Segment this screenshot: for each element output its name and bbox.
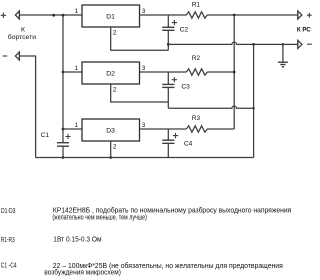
ground symbol <box>282 43 285 46</box>
ground rail row1 to − output (with hop over + bus) <box>168 42 297 44</box>
node + input terminal label <box>1 13 6 18</box>
junction dot input bus tap <box>62 14 65 17</box>
junction dot D3 tap <box>62 128 65 131</box>
junction dot C1 to rail <box>62 156 65 159</box>
svg-text:D1-D3: D1-D3 <box>1 206 15 215</box>
svg-text:1Вт 0.15-0.3 Ом: 1Вт 0.15-0.3 Ом <box>53 235 101 244</box>
svg-text:2: 2 <box>113 87 117 94</box>
svg-text:R1: R1 <box>192 2 201 9</box>
regulator D1 <box>82 5 140 27</box>
svg-text:3: 3 <box>142 65 146 72</box>
resistor R3 <box>186 126 207 132</box>
svg-text:К РС: К РС <box>297 26 311 33</box>
capacitor C1 <box>57 143 69 147</box>
output + bus (vertical) <box>233 15 235 129</box>
svg-text:R2: R2 <box>192 55 201 62</box>
wire − input down to bottom ground rail <box>19 56 35 158</box>
svg-text:К: К <box>21 26 25 33</box>
input + bus wire (vertical) <box>62 15 64 142</box>
svg-text:C1: C1 <box>41 132 50 139</box>
junction dot ground bus top <box>252 43 255 46</box>
svg-text:3: 3 <box>142 122 146 129</box>
connector + output <box>298 11 302 19</box>
capacitor C2 <box>167 15 169 27</box>
svg-text:R1-R3: R1-R3 <box>1 235 15 244</box>
svg-text:D1: D1 <box>106 14 115 21</box>
wire R2 to + bus <box>207 71 234 73</box>
junction dot ground bus row2 <box>252 107 254 109</box>
resistor R2 <box>186 69 207 75</box>
resistor R1 <box>186 12 207 18</box>
ground bus (vertical) <box>253 44 255 157</box>
svg-text:C2: C2 <box>180 27 189 34</box>
svg-text:1: 1 <box>75 65 79 72</box>
svg-text:1: 1 <box>75 122 79 129</box>
svg-text:возбуждения микросхем): возбуждения микросхем) <box>44 268 121 277</box>
junction dot ground tap row1 <box>167 43 170 46</box>
svg-text:(желательно чем меньше, тем лу: (желательно чем меньше, тем лучше) <box>52 212 146 221</box>
svg-text:D2: D2 <box>106 71 115 78</box>
regulator D3 <box>82 119 140 141</box>
capacitor C3 <box>167 72 169 84</box>
svg-text:2: 2 <box>113 30 117 37</box>
junction dot (stray) on input wire <box>52 14 55 17</box>
wire + input to D1 pin1 <box>19 14 82 16</box>
ground rail row2 (hop over + bus) <box>168 106 253 108</box>
wire bus to D2 pin1 <box>63 71 82 73</box>
wire D3 pin3 to R3 <box>140 128 187 130</box>
wire R3 to + bus <box>207 128 234 130</box>
wire D3 pin2 to bottom rail <box>110 141 112 158</box>
connector X1 pin − (input) <box>15 52 19 60</box>
junction dot D2 tap <box>62 71 65 74</box>
junction dot + bus row2 <box>233 71 236 74</box>
wire R1 to + output <box>207 14 298 16</box>
svg-text:3: 3 <box>142 8 146 15</box>
regulator D2 <box>82 62 140 84</box>
notes text block <box>1 206 292 277</box>
svg-text:C1 -C4: C1 -C4 <box>1 261 17 270</box>
svg-text:D3: D3 <box>106 128 115 135</box>
wire D1 pin2 to ground jog <box>111 27 169 50</box>
bottom ground rail <box>36 157 254 159</box>
node − input terminal label <box>3 55 8 57</box>
capacitor C4 <box>167 129 169 140</box>
svg-text:R3: R3 <box>192 115 201 122</box>
wire D2 pin3 to R2 <box>140 71 187 73</box>
svg-text:C4: C4 <box>184 141 193 148</box>
junction dot + bus top <box>233 14 236 17</box>
wire bus to D3 pin1 <box>63 128 82 130</box>
connector X1 pin + (input) <box>15 11 19 19</box>
svg-text:C3: C3 <box>181 84 190 91</box>
wire D1 pin3 to R1 <box>140 14 187 16</box>
svg-text:2: 2 <box>113 144 117 151</box>
svg-text:бортсети: бортсети <box>8 33 36 41</box>
svg-text:1: 1 <box>75 8 79 15</box>
connector − output <box>298 40 302 48</box>
wire D2 pin2 to ground jog <box>111 84 169 102</box>
